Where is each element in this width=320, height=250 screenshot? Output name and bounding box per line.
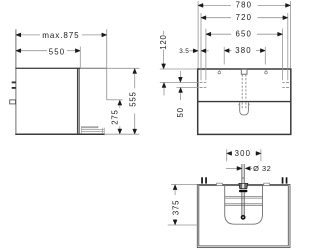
svg-text:375: 375 [171,200,180,215]
svg-text:max.875: max.875 [42,31,79,40]
svg-text:120: 120 [159,34,168,49]
svg-text:650: 650 [235,30,252,39]
svg-text:50: 50 [176,107,185,117]
svg-text:720: 720 [236,13,253,22]
svg-text:780: 780 [236,1,253,10]
svg-text:555: 555 [128,91,137,106]
svg-text:380: 380 [235,46,252,55]
svg-text:550: 550 [49,47,66,56]
svg-text:Ø 32: Ø 32 [253,164,271,173]
svg-text:300: 300 [235,149,252,158]
svg-text:275: 275 [110,109,119,124]
svg-text:3.5: 3.5 [179,48,189,55]
